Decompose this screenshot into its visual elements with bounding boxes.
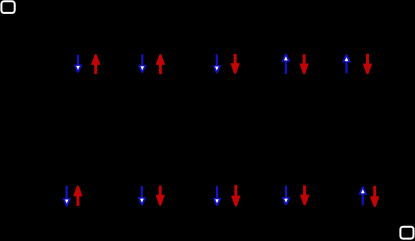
bottom 3 pair: blue spin arrow down (x=217.0) [213, 186, 222, 206]
top 4 pair: red spin arrow down (x=304.1) [299, 54, 308, 74]
top 1 pair: red spin arrow up (x=95.7) [91, 54, 100, 74]
bottom 4 pair: red spin arrow down (x=304.6) [300, 185, 309, 205]
top 5 pair: blue spin arrow up (x=346.5) [342, 54, 351, 73]
bottom-right corner rounded box [400, 227, 413, 239]
bottom 4 pair: blue spin arrow down (x=286.0) [282, 186, 291, 206]
bottom 1 pair: red spin arrow up (x=77.9) [73, 186, 82, 206]
bottom 3 pair: red spin arrow down (x=235.8) [231, 185, 240, 206]
bottom 2 pair: red spin arrow down (x=160.2) [156, 186, 165, 206]
bottom 1 pair: blue spin arrow down (x=66.7) [62, 186, 71, 206]
top 5 pair: red spin arrow down (x=367.5) [363, 54, 372, 74]
bottom 5 pair: blue spin arrow up (x=362.8) [358, 187, 367, 206]
top 2 pair: red spin arrow up (x=160.4) [156, 54, 165, 74]
bottom 2 pair: blue spin arrow down (x=141.9) [138, 186, 147, 205]
top-left corner rounded box [1, 1, 14, 13]
top 3 pair: blue spin arrow down (x=216.8) [212, 54, 221, 73]
top 4 pair: blue spin arrow up (x=285.9) [282, 54, 291, 74]
top 3 pair: red spin arrow down (x=235.1) [230, 54, 239, 74]
bottom 5 pair: red spin arrow down (x=374.7) [370, 186, 379, 207]
top 1 pair: blue spin arrow down (x=78.0) [74, 55, 83, 73]
top 2 pair: blue spin arrow down (x=142.3) [138, 54, 147, 73]
